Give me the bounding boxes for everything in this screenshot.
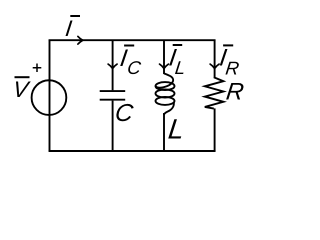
- svg-text:R: R: [224, 57, 240, 78]
- arrow IC: [108, 64, 117, 68]
- svg-text:C: C: [126, 57, 143, 78]
- svg-text:V: V: [11, 77, 31, 102]
- wire resistor branch lower: [214, 108, 216, 151]
- label V bar: [15, 76, 30, 78]
- capacitor C bottom plate: [100, 99, 126, 101]
- label IR bar: [223, 44, 233, 46]
- svg-text:L: L: [174, 57, 187, 78]
- svg-text:L: L: [167, 114, 186, 145]
- wire left: [49, 40, 51, 151]
- arrow I top: [78, 36, 83, 44]
- wire inductor branch upper: [163, 40, 165, 74]
- arrow IL: [160, 64, 169, 68]
- label IL bar: [173, 44, 183, 46]
- wire resistor branch upper: [214, 40, 216, 77]
- inductor L coil: [156, 73, 175, 115]
- label I bar (top): [70, 15, 80, 17]
- wire capacitor branch upper: [112, 40, 114, 90]
- wire inductor branch lower: [163, 113, 165, 151]
- svg-text:I: I: [64, 16, 74, 41]
- capacitor C top plate: [100, 90, 126, 92]
- plus sign of source: [33, 64, 42, 73]
- label IC bar: [124, 45, 134, 47]
- wire top: [49, 39, 216, 41]
- voltage source V1 circle: [32, 80, 67, 115]
- resistor R zigzag: [205, 77, 224, 108]
- arrow IR: [210, 64, 219, 68]
- wire bottom: [49, 150, 216, 152]
- wire capacitor branch lower: [112, 101, 114, 151]
- svg-text:C: C: [113, 100, 134, 127]
- svg-text:R: R: [225, 79, 246, 106]
